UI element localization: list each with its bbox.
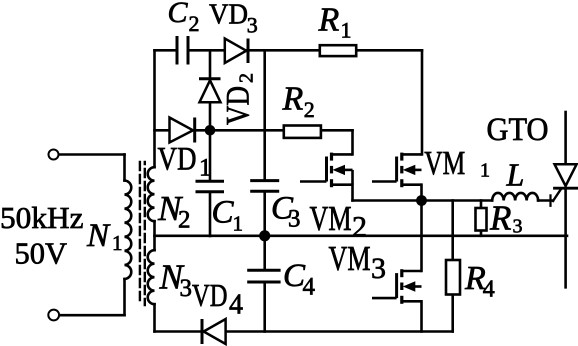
svg-text:4: 4 bbox=[483, 276, 495, 302]
svg-text:L: L bbox=[506, 157, 525, 193]
svg-text:1: 1 bbox=[480, 160, 490, 182]
svg-text:VD: VD bbox=[221, 86, 257, 125]
svg-text:50V: 50V bbox=[15, 236, 68, 271]
svg-text:3: 3 bbox=[513, 216, 523, 238]
svg-text:3: 3 bbox=[247, 12, 258, 37]
svg-text:1: 1 bbox=[341, 18, 352, 43]
svg-text:4: 4 bbox=[303, 274, 316, 301]
svg-text:R: R bbox=[318, 2, 340, 39]
svg-text:GTO: GTO bbox=[487, 112, 549, 148]
svg-text:1: 1 bbox=[199, 155, 212, 182]
svg-text:2: 2 bbox=[189, 11, 200, 36]
svg-text:1: 1 bbox=[112, 231, 123, 255]
svg-text:VM: VM bbox=[329, 239, 371, 278]
svg-text:50kHz: 50kHz bbox=[0, 200, 83, 235]
svg-text:VM: VM bbox=[310, 199, 352, 238]
svg-text:VD: VD bbox=[158, 142, 197, 178]
svg-text:R: R bbox=[282, 80, 304, 117]
svg-text:4: 4 bbox=[229, 289, 243, 320]
svg-text:1: 1 bbox=[233, 212, 244, 236]
svg-text:3: 3 bbox=[288, 206, 301, 233]
svg-text:N: N bbox=[86, 218, 111, 254]
svg-text:VM: VM bbox=[424, 145, 465, 182]
svg-text:VD: VD bbox=[209, 0, 248, 31]
svg-text:3: 3 bbox=[371, 252, 386, 285]
svg-text:C: C bbox=[212, 195, 235, 231]
svg-text:2: 2 bbox=[178, 207, 191, 234]
svg-text:VD: VD bbox=[192, 277, 228, 313]
svg-text:R: R bbox=[489, 199, 511, 238]
svg-text:2: 2 bbox=[304, 97, 315, 122]
svg-text:C: C bbox=[168, 0, 189, 29]
svg-text:2: 2 bbox=[236, 73, 258, 83]
svg-text:3: 3 bbox=[180, 275, 193, 302]
